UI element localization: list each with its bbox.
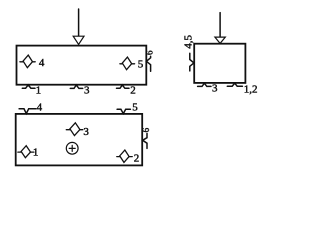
svg-text:5: 5	[132, 101, 138, 113]
support symbol 3 (bottom edge box 2)	[198, 83, 211, 86]
svg-text:6: 6	[145, 50, 155, 55]
svg-text:1,2: 1,2	[244, 84, 258, 96]
clamping force arrow W1 (line)	[78, 9, 80, 36]
svg-text:6: 6	[141, 127, 151, 132]
svg-text:5: 5	[138, 59, 144, 71]
support symbol 2 (bottom edge box 1)	[117, 85, 130, 88]
workpiece box 1 (top-left rectangle)	[17, 46, 147, 85]
locating point 1 (diamond, box 3)	[18, 145, 34, 158]
locating point 4 (diamond, box 1)	[20, 55, 35, 68]
support symbol 1 (bottom edge box 1)	[22, 85, 35, 88]
support symbol 6 (right edge box 1)	[146, 56, 150, 71]
svg-text:4: 4	[39, 57, 45, 69]
svg-text:2: 2	[130, 85, 136, 97]
clamping force arrow W2 (open arrowhead)	[215, 37, 225, 43]
support symbol 4,5 (left edge box 2)	[190, 53, 194, 71]
clamping force arrow W2 (line)	[219, 13, 221, 37]
clamping force arrow W1 (open arrowhead)	[73, 36, 84, 44]
svg-text:2: 2	[134, 153, 140, 165]
clamping force perpendicular to page (circle-plus)	[66, 142, 78, 154]
svg-text:3: 3	[212, 82, 218, 94]
support symbol 4 (top edge box 3)	[19, 109, 36, 114]
svg-text:4,5: 4,5	[182, 35, 194, 49]
svg-text:1: 1	[36, 84, 42, 96]
support symbol 6 (right edge box 3)	[143, 133, 147, 148]
locating point 3 (diamond, box 3)	[66, 122, 83, 135]
svg-text:4: 4	[37, 101, 43, 113]
support symbol 3 (bottom edge box 1)	[70, 85, 82, 88]
svg-text:3: 3	[84, 84, 90, 96]
svg-text:1: 1	[33, 147, 39, 159]
locating point 2 (diamond, box 3)	[117, 150, 132, 163]
locating point 5 (diamond, box 1)	[120, 57, 135, 70]
workpiece box 3 (bottom rectangle)	[16, 114, 143, 165]
svg-text:3: 3	[83, 126, 89, 138]
support symbol 1,2 (bottom edge box 2)	[227, 83, 242, 86]
support symbol 5 (top edge box 3)	[117, 109, 130, 113]
workpiece box 2 (top-right rectangle)	[194, 44, 245, 83]
